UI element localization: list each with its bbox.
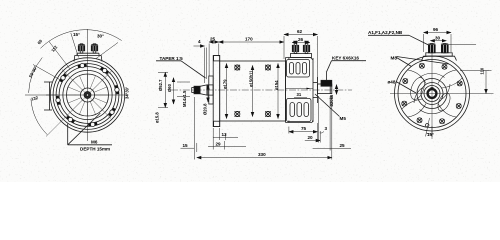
left view spokes <box>67 74 109 116</box>
flange plates <box>209 56 220 127</box>
dimension 26 <box>292 37 309 43</box>
svg-text:15: 15 <box>183 143 189 148</box>
right view terminal stud 2 <box>441 44 448 53</box>
svg-text:31: 31 <box>297 92 302 97</box>
left view hub <box>81 88 95 102</box>
shaft diameter 20k6 <box>329 85 337 107</box>
dimension 20 and 3 <box>305 96 328 143</box>
svg-text:25: 25 <box>340 143 346 148</box>
svg-text:330: 330 <box>258 152 266 157</box>
terminal designation label <box>368 30 430 46</box>
svg-text:Ø52.7: Ø52.7 <box>158 79 163 91</box>
taper leader <box>156 56 206 78</box>
dimension 330 <box>197 96 332 160</box>
motor body <box>220 61 286 121</box>
svg-text:25: 25 <box>210 37 216 42</box>
right view inner ring <box>417 79 447 109</box>
left view M6 depth leader <box>68 113 112 152</box>
15 degree dimension <box>426 118 435 137</box>
svg-text:15°: 15° <box>427 132 434 137</box>
svg-text:110: 110 <box>480 67 485 74</box>
svg-text:ø154: ø154 <box>274 80 279 90</box>
M8 label and leaders <box>391 56 449 67</box>
svg-text:30°: 30° <box>97 34 104 39</box>
dimension 62 <box>284 29 318 82</box>
svg-text:M8: M8 <box>391 56 398 61</box>
M5 tapped hole label <box>315 94 346 121</box>
rear shaft stub <box>318 80 332 93</box>
svg-text:Ø20.8: Ø20.8 <box>203 103 208 115</box>
svg-text:ø20k6: ø20k6 <box>329 94 334 107</box>
left view terminal block <box>74 53 102 61</box>
dimension 170 <box>219 37 284 57</box>
svg-text:ø48: ø48 <box>388 80 396 85</box>
middle terminal stud 1 <box>292 41 298 53</box>
middle terminal base <box>291 54 312 58</box>
left view left flat chord <box>44 82 52 110</box>
brush cover bottom <box>287 99 312 122</box>
dimension 15 <box>181 97 197 160</box>
middle centerline <box>171 89 352 91</box>
svg-text:M5: M5 <box>340 116 347 121</box>
svg-text:30: 30 <box>435 35 441 40</box>
dimension 29 <box>208 128 246 150</box>
left view angular dimension arcs <box>25 30 122 135</box>
svg-text:29: 29 <box>216 141 222 146</box>
left view terminal stud 2 <box>91 44 97 53</box>
body internal dimension lines <box>227 64 279 119</box>
svg-text:M14x1.5: M14x1.5 <box>182 90 187 107</box>
right view housing circles <box>395 56 470 131</box>
right view 15deg index hole <box>426 124 429 127</box>
svg-text:170: 170 <box>245 37 253 42</box>
svg-text:75: 75 <box>301 126 307 131</box>
key label <box>327 56 367 84</box>
right view centerlines <box>390 52 494 139</box>
body diameter labels <box>223 70 280 90</box>
31 dimension <box>286 88 313 98</box>
right view bolt holes <box>402 63 462 123</box>
dimension 96 <box>424 27 451 52</box>
through-bolt symbols <box>235 65 271 117</box>
svg-text:Ø60: Ø60 <box>167 83 172 92</box>
commutator end housing <box>286 58 318 123</box>
svg-text:ø150h11: ø150h11 <box>249 70 254 87</box>
left view terminal stud 1 <box>78 44 84 53</box>
svg-text:A1,F1,A2,F2,NB: A1,F1,A2,F2,NB <box>368 30 403 35</box>
svg-text:M6: M6 <box>91 140 98 145</box>
svg-text:13: 13 <box>222 132 228 137</box>
svg-text:KEY 6X6X16: KEY 6X6X16 <box>332 56 359 61</box>
svg-text:3: 3 <box>325 126 328 131</box>
svg-text:62: 62 <box>297 29 303 34</box>
taper shaft <box>200 85 213 95</box>
left shaft labels <box>155 79 209 123</box>
shaft locknut <box>192 86 200 94</box>
right view terminal base <box>422 45 477 61</box>
dimension 25 top <box>209 37 219 76</box>
svg-text:TAPER 1:5: TAPER 1:5 <box>160 56 184 61</box>
middle terminal stud 2 <box>303 41 309 53</box>
left view bolt holes with lock tabs <box>56 63 119 126</box>
svg-text:96: 96 <box>433 27 439 32</box>
right view curved spokes <box>402 70 462 117</box>
svg-text:26: 26 <box>298 37 304 42</box>
right view hub and shaft <box>424 86 440 102</box>
svg-text:4: 4 <box>198 39 201 44</box>
svg-text:34°30': 34°30' <box>125 87 130 99</box>
svg-text:20: 20 <box>308 135 314 140</box>
dimension 110 <box>460 67 492 93</box>
svg-text:DEPTH 15mm: DEPTH 15mm <box>80 147 110 152</box>
svg-text:15°: 15° <box>73 32 80 37</box>
dimension 25 right <box>313 96 351 151</box>
diameter 48 label <box>388 80 417 94</box>
svg-text:ø179: ø179 <box>223 79 228 89</box>
dimension 4 <box>194 39 207 83</box>
svg-text:ø15.8: ø15.8 <box>155 112 160 123</box>
left view angle labels <box>28 32 130 102</box>
brush cover top <box>287 60 310 78</box>
right view terminal stud 1 <box>428 44 435 53</box>
left view housing circles <box>50 58 124 132</box>
left shaft dimension lines <box>158 72 190 107</box>
dimension 30 <box>430 35 446 40</box>
left view centerlines <box>46 29 128 141</box>
dimension 13 <box>213 128 238 140</box>
dimension 75 <box>289 123 318 142</box>
